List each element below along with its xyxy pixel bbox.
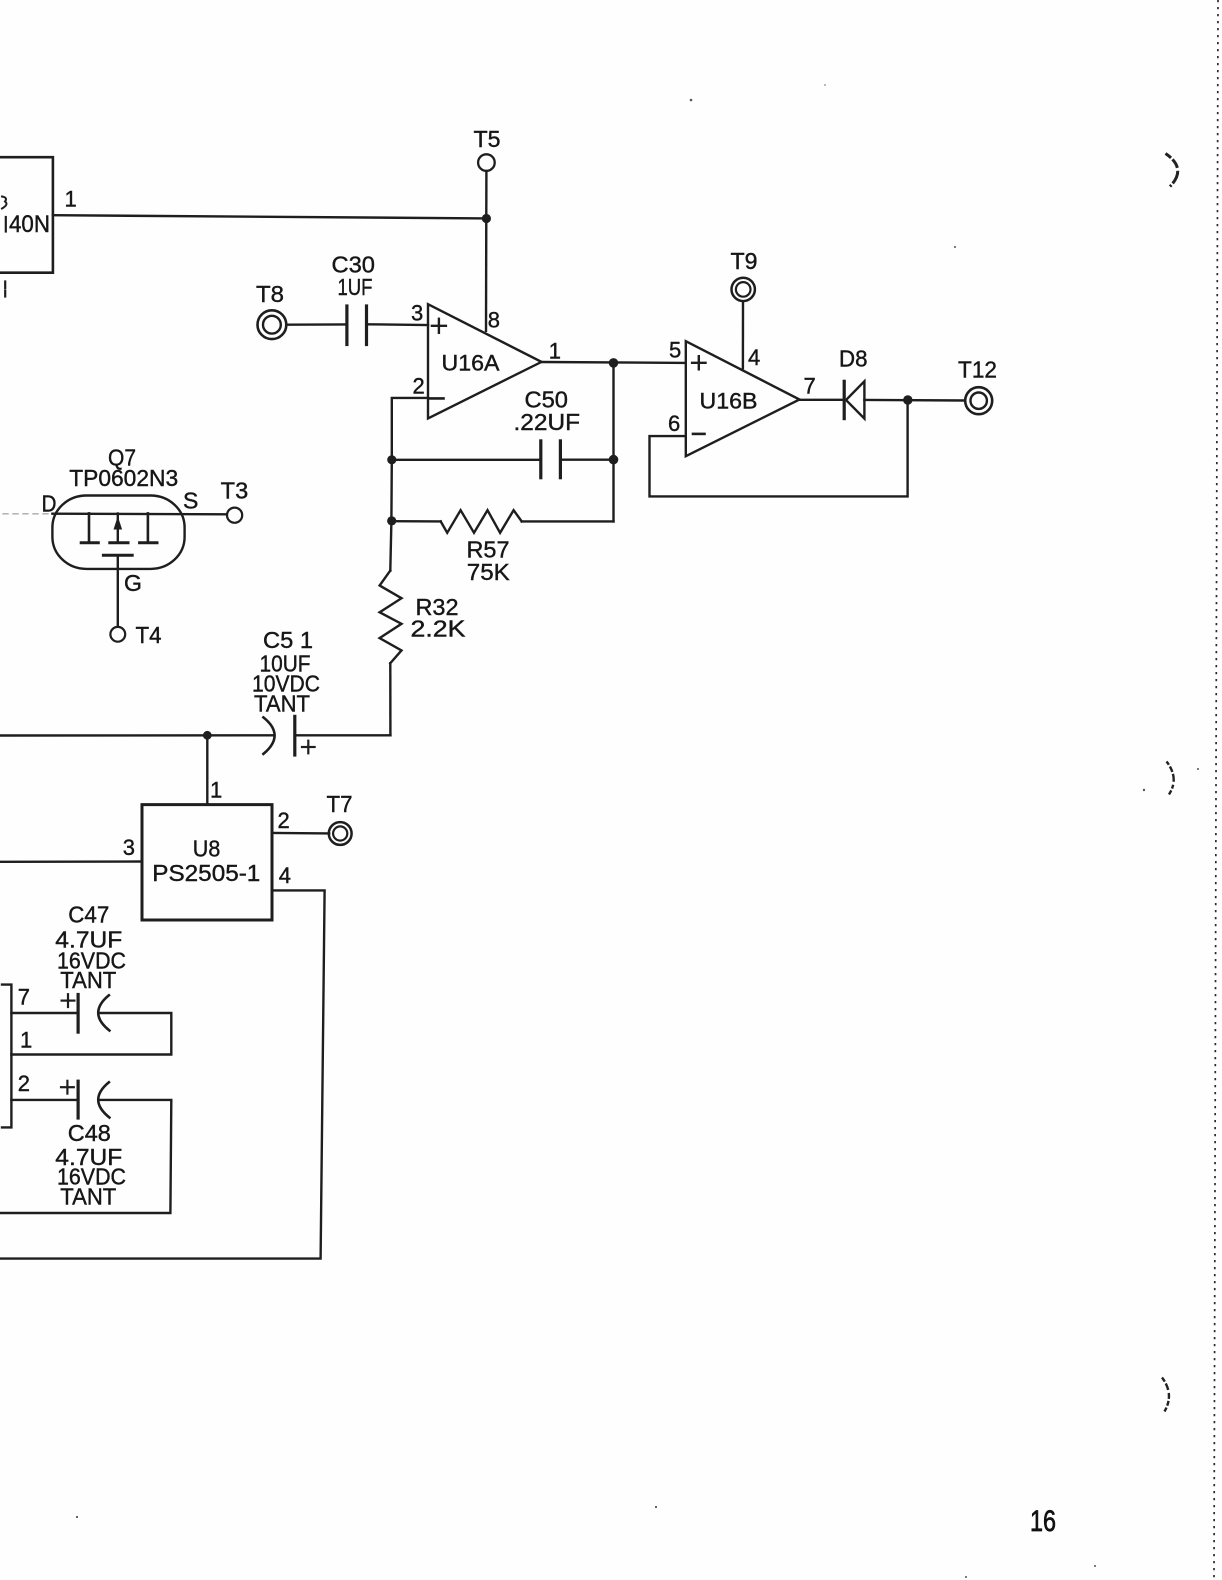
svg-text:1: 1 — [549, 339, 561, 364]
wire pin 2 to C48 — [11, 1099, 78, 1101]
Q7 substrate arrow — [117, 514, 119, 542]
svg-text:4: 4 — [748, 345, 760, 370]
svg-text:C48: C48 — [68, 1120, 111, 1146]
svg-text:2: 2 — [278, 808, 290, 833]
junction at T5 — [482, 214, 491, 223]
svg-text:16: 16 — [1030, 1505, 1056, 1538]
scan artifact: crescent mark 2 — [1167, 762, 1174, 795]
wire D8 to T12 — [864, 399, 965, 402]
wire pin1 of IC box to T5 junction — [53, 215, 487, 218]
svg-text:2: 2 — [18, 1071, 30, 1096]
wire U8 pin 3 from off-page — [0, 860, 142, 863]
C51 plus symbol — [302, 746, 315, 748]
svg-text:U16A: U16A — [442, 351, 500, 376]
svg-text:D8: D8 — [839, 346, 868, 372]
wire left node C50 to R57 to R32 — [390, 460, 392, 571]
partial character fragment before 40N — [5, 217, 7, 232]
wire gate to T4 — [117, 555, 119, 627]
test point T4 circle — [110, 627, 125, 642]
wire T5 down to U16A pin 8 — [485, 171, 488, 331]
svg-text:8: 8 — [488, 308, 500, 333]
wire C48 right and down off-page — [0, 1100, 171, 1213]
svg-text:5: 5 — [669, 338, 681, 363]
svg-text:75K: 75K — [467, 559, 511, 585]
wire R57 to right vertical — [522, 520, 614, 522]
svg-text:PS2505-1: PS2505-1 — [152, 860, 260, 886]
capacitor C48 curved plate — [98, 1082, 109, 1117]
svg-text:G: G — [124, 570, 142, 596]
wire left node to C50 — [392, 459, 541, 461]
wire C30 to U16A pin 3 — [367, 323, 429, 326]
resistor R32 zigzag (vertical) — [380, 571, 402, 664]
wire C50 to right node — [560, 459, 613, 461]
capacitor C51 curved plate — [263, 717, 274, 754]
svg-text:D: D — [42, 490, 57, 516]
wire U16A pin 2 to feedback node — [392, 398, 428, 460]
svg-text:T9: T9 — [731, 248, 758, 274]
partial character fragment below IC box — [4, 282, 6, 289]
wire C51 to R32 bottom — [295, 734, 391, 736]
wire U16B output pin 7 to D8 — [800, 399, 845, 401]
svg-text:6: 6 — [668, 411, 680, 436]
svg-text:1: 1 — [20, 1028, 32, 1053]
U16A plus input symbol — [432, 325, 446, 327]
wire U16B pin 6 feedback loop — [650, 400, 908, 496]
wire output junction down to R57 — [612, 363, 614, 522]
svg-text:1UF: 1UF — [338, 274, 373, 300]
svg-text:7: 7 — [18, 984, 30, 1009]
wire C47 to pin 1 loop — [11, 1013, 171, 1055]
junction C51 / U8 pin 1 — [203, 731, 212, 740]
C47 plus symbol — [62, 999, 75, 1001]
svg-text:7: 7 — [804, 374, 816, 399]
svg-text:T5: T5 — [474, 126, 501, 152]
partial character fragment left edge above 40N — [2, 197, 6, 209]
diode D8 triangle — [846, 381, 864, 418]
capacitor C30 plates — [345, 306, 348, 345]
capacitor C47 curved plate — [98, 995, 109, 1030]
op-amp U16A triangle — [428, 304, 542, 418]
test point T7 circle — [329, 822, 352, 845]
capacitor C47 straight plate — [76, 995, 79, 1033]
capacitor C48 straight plate — [76, 1081, 79, 1118]
junction R57 left — [387, 516, 396, 525]
svg-text:.22UF: .22UF — [514, 409, 581, 435]
Q7 source bar — [147, 513, 150, 541]
wire junction down to U8 pin 1 — [206, 735, 208, 804]
svg-text:C47: C47 — [68, 902, 109, 928]
svg-text:3: 3 — [411, 301, 423, 326]
test point T9 circle — [732, 278, 755, 301]
svg-text:2.2K: 2.2K — [411, 616, 467, 642]
wire U16A output pin 1 to U16B pin 5 — [542, 361, 686, 364]
wire T8 to C30 — [287, 323, 347, 326]
scan artifact: crescent mark 1 — [1166, 154, 1178, 187]
capacitor C50 plates — [539, 441, 542, 478]
wire U8 pin 4 down and left off-page — [0, 890, 325, 1258]
svg-text:TANT: TANT — [60, 967, 116, 993]
svg-text:TP0602N3: TP0602N3 — [69, 465, 178, 491]
C48 plus symbol — [61, 1086, 74, 1088]
svg-text:TANT: TANT — [254, 691, 310, 717]
op-amp U16B triangle — [686, 341, 800, 456]
test point T5 circle — [478, 154, 495, 171]
resistor R57 zigzag — [441, 510, 522, 533]
U16B minus input symbol — [693, 433, 705, 436]
wire U8 pin 2 to T7 — [272, 832, 329, 835]
junction D8 T12 — [903, 395, 912, 404]
wire left node to R57 — [392, 520, 441, 523]
svg-text:T3: T3 — [221, 477, 249, 503]
wire drain off-page (faint) — [3, 513, 52, 515]
svg-text:4: 4 — [279, 863, 291, 888]
scan artifact: page edge dotted line — [1214, 0, 1218, 1580]
U16A minus input symbol — [430, 397, 444, 400]
scan artifact: crescent mark 3 — [1162, 1378, 1169, 1412]
optocoupler U8 box — [142, 805, 272, 920]
U16B plus input symbol — [692, 362, 705, 364]
junction C50 right — [609, 455, 619, 465]
svg-text:2: 2 — [413, 374, 425, 399]
svg-text:3: 3 — [123, 835, 135, 860]
Q7 drain bar — [88, 513, 91, 541]
transistor Q7 body — [52, 496, 184, 569]
svg-text:S: S — [183, 487, 198, 513]
wire Q7 top rail drain-source to T3 — [52, 513, 227, 516]
svg-text:U16B: U16B — [700, 388, 758, 413]
svg-text:T12: T12 — [958, 357, 997, 383]
wire left rail to C51 — [0, 734, 274, 737]
wire T9 to U16B pin 4 — [742, 301, 744, 368]
wire R32 down to C51 rail — [389, 663, 392, 735]
svg-text:1: 1 — [65, 187, 77, 212]
junction U16A output — [609, 358, 619, 368]
Q7 gate bar — [103, 554, 132, 557]
svg-text:U8: U8 — [193, 835, 221, 861]
capacitor C51 straight plate — [293, 716, 296, 755]
wire pin 7 to C47 — [11, 1012, 78, 1014]
svg-text:1: 1 — [210, 778, 222, 803]
svg-text:C5 1: C5 1 — [263, 627, 313, 653]
test point T8 circle — [258, 310, 287, 339]
svg-text:T7: T7 — [327, 791, 353, 817]
diode D8 cathode bar — [843, 381, 846, 418]
svg-text:T8: T8 — [256, 281, 284, 307]
svg-text:TANT: TANT — [60, 1183, 116, 1209]
junction C50 left — [387, 455, 396, 464]
test point T3 circle — [227, 508, 242, 523]
scan speck dots — [690, 99, 693, 102]
svg-text:40N: 40N — [9, 211, 50, 238]
IC box (partial, off-page left) with pin 1 — [0, 157, 53, 273]
svg-text:T4: T4 — [136, 622, 162, 648]
test point T12 circle — [965, 387, 992, 414]
connector bracket (off-page left) — [2, 985, 11, 1128]
